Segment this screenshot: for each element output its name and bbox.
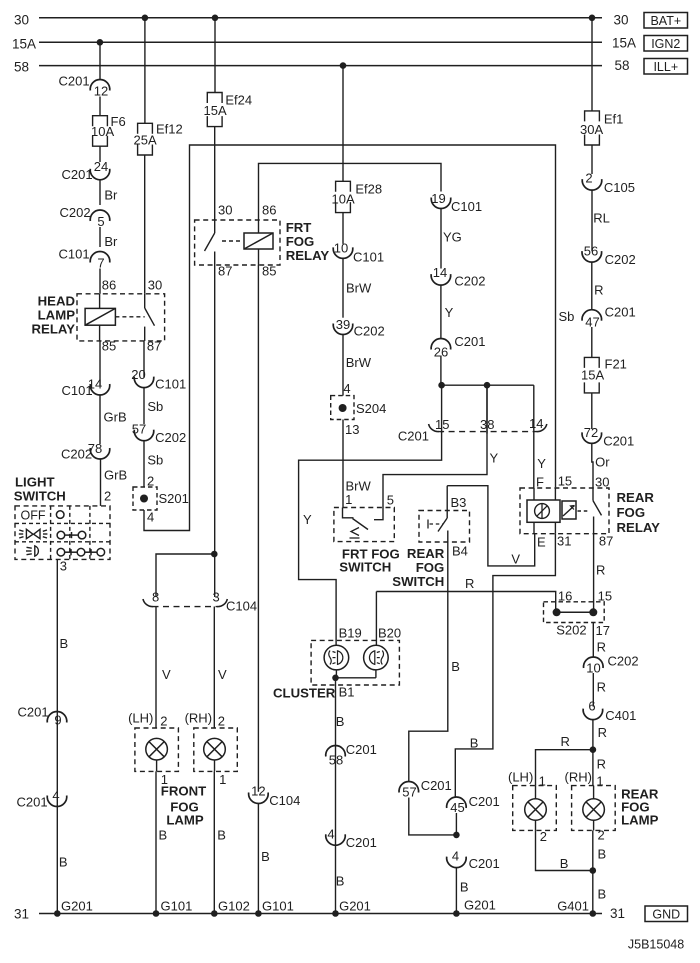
svg-text:C104: C104 bbox=[226, 599, 257, 614]
ground G201 bbox=[54, 910, 61, 917]
svg-text:C201: C201 bbox=[59, 74, 90, 89]
svg-text:B: B bbox=[336, 714, 345, 729]
svg-text:24: 24 bbox=[94, 159, 108, 174]
svg-text:4: 4 bbox=[327, 827, 334, 842]
rear fog relay switch pin 87 lead bbox=[593, 517, 595, 534]
wire Ef24 to frt fog relay 30 bbox=[214, 127, 216, 220]
wire B light switch pin 3 to G201 bbox=[56, 559, 58, 913]
svg-text:LAMP: LAMP bbox=[38, 308, 76, 323]
ground G401 bbox=[590, 910, 597, 917]
svg-text:BrW: BrW bbox=[346, 281, 372, 296]
svg-text:B: B bbox=[217, 828, 226, 843]
wire C201-47 to F21 bbox=[591, 327, 593, 357]
svg-text:ILL+: ILL+ bbox=[653, 60, 678, 74]
svg-text:45: 45 bbox=[450, 800, 464, 815]
svg-text:G401: G401 bbox=[557, 899, 589, 914]
wire cluster B20 lead bbox=[375, 592, 377, 646]
fuse F21 15A bbox=[584, 357, 599, 368]
light switch grid v2 bbox=[69, 506, 71, 560]
wire R rear fog relay 87 to S202-15 bbox=[593, 534, 595, 613]
svg-text:12: 12 bbox=[251, 784, 265, 799]
svg-text:Or: Or bbox=[595, 455, 610, 470]
svg-text:31: 31 bbox=[610, 906, 625, 921]
ground G101 bbox=[255, 910, 262, 917]
wire frt fog relay 87 down to C104-3 bbox=[214, 265, 216, 597]
svg-text:8: 8 bbox=[152, 590, 159, 605]
wire B C104-12 to G101 bbox=[257, 804, 259, 914]
bus 58 ILL+ bbox=[39, 65, 602, 67]
wire B front fog RH to G102 bbox=[213, 771, 215, 913]
svg-text:C101: C101 bbox=[353, 250, 384, 265]
wire Ef28 to C101-10 bbox=[342, 213, 344, 244]
GND box bbox=[645, 906, 688, 922]
svg-text:12: 12 bbox=[94, 84, 108, 99]
svg-text:Sb: Sb bbox=[559, 309, 575, 324]
svg-text:2: 2 bbox=[147, 474, 154, 489]
rear fog switch pin B3 lead bbox=[446, 486, 448, 518]
svg-text:85: 85 bbox=[262, 264, 276, 279]
wire B rear fog LH to junction bbox=[536, 830, 593, 870]
junction cluster common bbox=[332, 675, 339, 682]
wire C101-7 to head lamp relay 86 bbox=[99, 269, 101, 294]
svg-text:R: R bbox=[598, 725, 607, 740]
bus 30 BAT+ bbox=[39, 17, 602, 19]
rear fog relay switch pin 30 lead bbox=[592, 477, 594, 501]
head lamp relay switch pin 87 lead bbox=[144, 327, 146, 341]
wire B rear fog switch B4 to C201-57 bbox=[409, 542, 448, 782]
wire GrB C202-78 to light switch pin 2 bbox=[100, 459, 102, 506]
wire relay 87 to C101-20 bbox=[143, 341, 145, 378]
svg-text:FRONT: FRONT bbox=[161, 784, 206, 799]
ILL+ box bbox=[644, 59, 688, 75]
connector C104 multiway bbox=[143, 599, 153, 607]
lead bbox=[156, 760, 158, 771]
wire GrB C101-14 to C202-78 bbox=[99, 395, 101, 444]
svg-text:B: B bbox=[60, 636, 69, 651]
junction 58 / Ef28 feed bbox=[340, 62, 347, 69]
svg-text:Ef1: Ef1 bbox=[604, 112, 624, 127]
svg-text:15A: 15A bbox=[612, 36, 636, 51]
svg-text:SWITCH: SWITCH bbox=[392, 574, 444, 589]
rear fog relay pin 31 lead bbox=[554, 522, 556, 533]
svg-text:G101: G101 bbox=[262, 899, 294, 914]
indicator B19 front fog bbox=[324, 645, 349, 670]
wire C201-12 to F6 bbox=[99, 97, 101, 116]
rear fog relay pin F lead bbox=[533, 488, 535, 500]
wire Sb C202-57 to S201 bbox=[143, 441, 145, 487]
frt fog relay coil pin 86 lead bbox=[258, 220, 260, 233]
junction rear fog lamp feed bbox=[590, 746, 597, 753]
indicator B20 rear fog bbox=[364, 645, 389, 670]
svg-text:2: 2 bbox=[540, 829, 547, 844]
svg-text:15: 15 bbox=[558, 474, 572, 489]
svg-text:FRT: FRT bbox=[286, 220, 312, 235]
svg-text:2: 2 bbox=[104, 489, 111, 504]
fuse Ef12 25A bbox=[138, 123, 153, 134]
svg-text:S204: S204 bbox=[356, 401, 386, 416]
fuse F6 10A bbox=[93, 116, 108, 127]
svg-text:R: R bbox=[597, 757, 606, 772]
svg-text:OFF: OFF bbox=[21, 508, 46, 522]
wire BrW C202-39 to S204 bbox=[342, 335, 344, 396]
svg-text:G201: G201 bbox=[61, 899, 93, 914]
svg-text:31: 31 bbox=[557, 534, 571, 549]
head lamp relay coil pin 85 lead bbox=[99, 325, 101, 341]
svg-text:C201: C201 bbox=[603, 434, 634, 449]
connector C201 multiway bbox=[429, 424, 439, 432]
connector C202 pin 10 bbox=[584, 657, 604, 668]
svg-text:15: 15 bbox=[435, 417, 449, 432]
light switch OFF contact bbox=[56, 511, 64, 519]
svg-text:14: 14 bbox=[433, 265, 447, 280]
wire B rear fog relay 31 to C201-45 bbox=[455, 534, 555, 797]
svg-text:GND: GND bbox=[652, 907, 680, 921]
wire BrW C101-10 to C202-39 bbox=[342, 258, 344, 317]
svg-text:RL: RL bbox=[593, 211, 610, 226]
svg-text:GrB: GrB bbox=[104, 468, 127, 483]
svg-text:Y: Y bbox=[490, 451, 499, 466]
rear fog switch blade bbox=[438, 518, 447, 532]
svg-text:15A: 15A bbox=[204, 103, 227, 118]
wire B front fog LH to G101 bbox=[155, 771, 157, 913]
svg-text:57: 57 bbox=[402, 785, 416, 800]
svg-text:RELAY: RELAY bbox=[617, 520, 661, 535]
light switch park contacts bbox=[57, 531, 65, 539]
svg-text:4: 4 bbox=[452, 849, 459, 864]
splice S204 bbox=[331, 396, 354, 420]
head lamp relay switch pin 30 lead bbox=[144, 294, 146, 308]
wire Sb C101-20 to C202-57 bbox=[143, 388, 145, 424]
svg-text:30: 30 bbox=[595, 475, 609, 490]
cluster box bbox=[311, 640, 399, 685]
lead bbox=[535, 786, 537, 799]
wire C201-45 to junction bbox=[455, 813, 457, 835]
svg-text:72: 72 bbox=[584, 425, 598, 440]
lamp front fog LH box bbox=[135, 728, 179, 771]
frt fog relay switch pin 87 lead bbox=[214, 252, 216, 266]
svg-text:10: 10 bbox=[334, 241, 348, 256]
svg-text:C201: C201 bbox=[62, 167, 93, 182]
svg-text:REAR: REAR bbox=[407, 546, 445, 561]
junction 57/45 chains bbox=[453, 832, 460, 839]
svg-text:10A: 10A bbox=[332, 192, 355, 207]
wire B cluster B1 to G201 bbox=[335, 678, 337, 914]
connector C101 pin 7 bbox=[90, 252, 110, 263]
svg-text:FOG: FOG bbox=[286, 234, 315, 249]
relay frt fog relay box bbox=[195, 220, 280, 265]
svg-text:C101: C101 bbox=[59, 247, 90, 262]
svg-text:Y: Y bbox=[445, 305, 454, 320]
svg-text:F: F bbox=[536, 475, 544, 490]
frt fog switch pin 5 lead bbox=[374, 508, 383, 520]
wire Y C202-14 to C201-26 bbox=[440, 285, 442, 338]
wire V rear fog switch B3 to relay E bbox=[447, 486, 535, 566]
svg-text:FOG: FOG bbox=[416, 560, 445, 575]
svg-text:87: 87 bbox=[599, 534, 613, 549]
lamp front fog RH box bbox=[194, 728, 238, 771]
svg-text:15A: 15A bbox=[12, 37, 36, 52]
svg-text:B: B bbox=[560, 856, 569, 871]
svg-text:25A: 25A bbox=[134, 133, 157, 148]
svg-text:R: R bbox=[594, 283, 603, 298]
svg-text:G201: G201 bbox=[339, 899, 371, 914]
wire B19 to junction bbox=[335, 670, 337, 678]
svg-text:B: B bbox=[261, 849, 270, 864]
svg-text:C101: C101 bbox=[155, 377, 186, 392]
svg-text:39: 39 bbox=[336, 317, 350, 332]
wire frt fog relay 86 feed to C101-19 bbox=[259, 163, 442, 220]
svg-text:J5B15048: J5B15048 bbox=[628, 938, 684, 952]
svg-text:LAMP: LAMP bbox=[621, 813, 659, 828]
svg-text:F21: F21 bbox=[605, 357, 627, 372]
lamp rear fog LH box bbox=[513, 786, 557, 831]
svg-text:HEAD: HEAD bbox=[38, 294, 75, 309]
svg-text:B: B bbox=[598, 847, 607, 862]
wire R C401-6 to lamp junction bbox=[592, 720, 594, 750]
head lamp relay coil bbox=[85, 308, 115, 325]
wire F21 to C201-72 bbox=[591, 393, 593, 429]
relay K head lamp relay box bbox=[77, 294, 165, 341]
frt fog switch blade bbox=[353, 519, 369, 530]
svg-text:C401: C401 bbox=[605, 708, 636, 723]
wire 58 to Ef28 bbox=[342, 66, 344, 182]
junction rear fog lamp grounds bbox=[590, 867, 597, 874]
frt fog switch detent symbol bbox=[351, 528, 359, 536]
svg-text:FOG: FOG bbox=[617, 505, 646, 520]
svg-text:3: 3 bbox=[213, 590, 220, 605]
svg-text:Y: Y bbox=[303, 512, 312, 527]
svg-text:5: 5 bbox=[387, 493, 394, 508]
svg-text:2: 2 bbox=[585, 171, 592, 186]
svg-text:3: 3 bbox=[60, 559, 67, 574]
wire branch to C104-8 bbox=[156, 554, 214, 597]
svg-text:30A: 30A bbox=[580, 122, 603, 137]
svg-text:30: 30 bbox=[218, 203, 232, 218]
ground G201 bbox=[332, 910, 339, 917]
svg-text:86: 86 bbox=[102, 278, 116, 293]
wire B C201-4 to G201 bbox=[455, 868, 457, 914]
svg-text:(RH): (RH) bbox=[565, 770, 592, 785]
lead bbox=[593, 820, 595, 830]
fuse Ef1 30A bbox=[585, 111, 600, 122]
svg-text:B: B bbox=[460, 880, 469, 895]
svg-text:C101: C101 bbox=[62, 383, 93, 398]
svg-text:BrW: BrW bbox=[346, 355, 372, 370]
svg-text:86: 86 bbox=[262, 203, 276, 218]
svg-text:C202: C202 bbox=[608, 654, 639, 669]
wire Or C201-72 to rear fog relay 30 bbox=[592, 443, 593, 477]
svg-text:V: V bbox=[511, 552, 520, 567]
svg-text:LIGHT: LIGHT bbox=[15, 475, 55, 490]
wire F6 to C201-24 bbox=[99, 146, 101, 162]
rear fog relay indicator block bbox=[527, 500, 560, 522]
rear fog switch pin B4 lead bbox=[447, 531, 449, 543]
switch rear fog switch box bbox=[419, 511, 470, 543]
wire YG C101-19 to C202-14 bbox=[440, 209, 442, 269]
wire R C202-56 to C201-47 bbox=[591, 262, 593, 310]
svg-text:C201: C201 bbox=[469, 856, 500, 871]
switch frt fog switch box bbox=[334, 508, 394, 542]
svg-text:R: R bbox=[597, 680, 606, 695]
frt fog relay actuation link bbox=[222, 240, 243, 242]
wire Y frt fog switch 5 to C201-38 bbox=[383, 385, 487, 507]
svg-text:87: 87 bbox=[147, 339, 161, 354]
svg-text:RELAY: RELAY bbox=[286, 248, 330, 263]
svg-text:56: 56 bbox=[584, 244, 598, 259]
frt fog switch pin 1 lead bbox=[343, 508, 354, 518]
svg-text:C201: C201 bbox=[17, 795, 48, 810]
junction C104 feed split bbox=[211, 551, 218, 558]
svg-text:S202: S202 bbox=[556, 623, 586, 638]
svg-text:IGN2: IGN2 bbox=[651, 37, 680, 51]
svg-text:30: 30 bbox=[148, 278, 162, 293]
lamp rear fog LH bbox=[525, 799, 547, 821]
svg-text:SWITCH: SWITCH bbox=[14, 489, 66, 504]
lead bbox=[535, 820, 537, 830]
svg-text:Br: Br bbox=[104, 234, 118, 249]
svg-text:SWITCH: SWITCH bbox=[339, 560, 391, 575]
junction 30 / Ef12 feed bbox=[142, 14, 149, 21]
splice S202 bbox=[544, 602, 605, 623]
wire S201-4 loop to rear fog relay pin 15 bbox=[144, 145, 556, 531]
junction 30 / Ef24 feed bbox=[212, 14, 219, 21]
wire frt fog relay 85 down to C104-12 bbox=[257, 265, 259, 792]
connector C201 pin 12 bbox=[90, 80, 110, 91]
ground G102 bbox=[211, 910, 218, 917]
svg-text:Ef24: Ef24 bbox=[225, 93, 252, 108]
svg-text:(RH): (RH) bbox=[185, 711, 212, 726]
wire cluster indicator common bbox=[336, 677, 376, 679]
switch S light switch box bbox=[15, 506, 110, 560]
wire R cluster B20 to S202-16 bbox=[376, 592, 555, 613]
wire V C104-8 to front fog LH bbox=[155, 607, 157, 729]
connector C202 pin 5 bbox=[90, 210, 110, 221]
svg-text:S201: S201 bbox=[159, 491, 189, 506]
wire B20 to junction bbox=[375, 670, 377, 678]
svg-text:14: 14 bbox=[529, 416, 543, 431]
svg-text:5: 5 bbox=[97, 214, 104, 229]
wire R C202-10 to C401-6 bbox=[592, 673, 594, 707]
ground G201 bbox=[453, 910, 460, 917]
svg-text:C201: C201 bbox=[421, 778, 452, 793]
svg-text:13: 13 bbox=[345, 422, 359, 437]
wire RL C105-2 to C202-56 bbox=[591, 190, 593, 251]
svg-text:6: 6 bbox=[588, 699, 595, 714]
frt fog relay switch pin 30 lead bbox=[214, 220, 216, 233]
svg-text:BAT+: BAT+ bbox=[650, 14, 681, 28]
svg-text:C201: C201 bbox=[346, 742, 377, 757]
svg-text:B3: B3 bbox=[451, 495, 467, 510]
svg-text:REAR: REAR bbox=[617, 490, 655, 505]
lamp rear fog RH box bbox=[572, 786, 616, 831]
svg-text:B1: B1 bbox=[339, 685, 355, 700]
IGN2 box bbox=[644, 36, 688, 52]
lamp front fog LH bbox=[146, 738, 168, 760]
svg-text:YG: YG bbox=[443, 230, 462, 245]
wire Ef1 to C105-2 bbox=[591, 145, 593, 174]
svg-text:C201: C201 bbox=[398, 429, 429, 444]
svg-text:B: B bbox=[59, 855, 68, 870]
light switch grid h1 bbox=[15, 522, 110, 524]
svg-text:Sb: Sb bbox=[147, 399, 163, 414]
svg-text:31: 31 bbox=[14, 907, 29, 922]
svg-text:Ef28: Ef28 bbox=[355, 182, 382, 197]
splice S201 bbox=[133, 487, 157, 510]
rear fog relay pin 15 lead bbox=[554, 487, 556, 500]
svg-text:(LH): (LH) bbox=[128, 711, 153, 726]
svg-text:B: B bbox=[451, 659, 460, 674]
svg-text:B19: B19 bbox=[339, 626, 362, 641]
head lamp relay actuation link bbox=[115, 316, 144, 318]
light switch grid v3 bbox=[89, 506, 91, 560]
svg-text:30: 30 bbox=[14, 13, 29, 28]
svg-text:G201: G201 bbox=[464, 898, 496, 913]
svg-text:2: 2 bbox=[160, 714, 167, 729]
svg-text:C201: C201 bbox=[454, 334, 485, 349]
svg-text:R: R bbox=[597, 640, 606, 655]
bus 15A IGN2 bbox=[39, 41, 602, 43]
svg-text:C202: C202 bbox=[61, 447, 92, 462]
wire V C104-3 to front fog RH bbox=[213, 607, 215, 729]
svg-text:9: 9 bbox=[54, 713, 61, 728]
junction 30 / Ef1 feed bbox=[589, 14, 596, 21]
connector C201 pin 47 bbox=[582, 310, 602, 321]
svg-text:C104: C104 bbox=[269, 793, 300, 808]
fuse Ef28 10A bbox=[336, 181, 351, 192]
svg-text:C202: C202 bbox=[60, 205, 91, 220]
connector C201 pin 57 bbox=[399, 782, 419, 793]
svg-text:4: 4 bbox=[147, 510, 154, 525]
light switch grid v1 bbox=[50, 506, 52, 560]
wire R S202-17 to C202-10 bbox=[592, 623, 594, 658]
lead bbox=[593, 786, 595, 799]
ground G101 bbox=[153, 910, 160, 917]
svg-text:38: 38 bbox=[480, 417, 494, 432]
svg-text:(LH): (LH) bbox=[508, 770, 533, 785]
svg-text:87: 87 bbox=[218, 264, 232, 279]
wire relay 85 to C101-14 bbox=[99, 341, 101, 386]
svg-text:C201: C201 bbox=[346, 835, 377, 850]
svg-text:10A: 10A bbox=[91, 124, 114, 139]
connector C201 pin 26 bbox=[431, 339, 451, 350]
junction pin15 feed bbox=[438, 382, 445, 389]
connector C201 pin 58 bbox=[326, 746, 346, 757]
BAT+ box bbox=[644, 13, 688, 29]
wire 30 to Ef12 bbox=[144, 18, 146, 124]
wire S202 internal bbox=[557, 611, 594, 613]
rear fog relay actuation link bbox=[578, 510, 589, 512]
svg-text:B: B bbox=[598, 887, 607, 902]
svg-text:2: 2 bbox=[218, 714, 225, 729]
svg-text:C201: C201 bbox=[469, 794, 500, 809]
wire Br C201-24 to C202-5 bbox=[99, 180, 101, 205]
svg-text:B20: B20 bbox=[378, 626, 401, 641]
svg-text:15A: 15A bbox=[581, 368, 604, 383]
svg-text:R: R bbox=[561, 734, 570, 749]
relay rear fog relay box bbox=[520, 488, 609, 534]
svg-text:B4: B4 bbox=[452, 544, 468, 559]
wire C201-26 to junction bbox=[440, 356, 442, 386]
fuse Ef24 15A bbox=[207, 93, 222, 104]
rear fog switch button symbol bbox=[427, 520, 429, 529]
wire 15A to C201-12 bbox=[99, 42, 101, 79]
svg-text:85: 85 bbox=[102, 339, 116, 354]
svg-text:C202: C202 bbox=[605, 252, 636, 267]
rear fog relay coil bbox=[562, 501, 576, 519]
svg-text:CLUSTER: CLUSTER bbox=[273, 686, 336, 701]
svg-text:2: 2 bbox=[598, 828, 605, 843]
svg-text:58: 58 bbox=[14, 60, 29, 75]
